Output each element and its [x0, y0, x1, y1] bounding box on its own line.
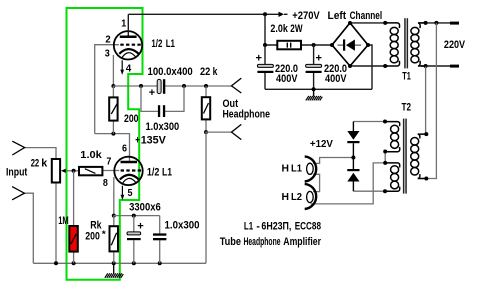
green highlight outline around SRPP stage — [67, 8, 143, 280]
transformer T1 primary winding — [385, 23, 399, 66]
svg-text:+: + — [135, 135, 140, 147]
heater HL1 — [305, 156, 316, 181]
terminal 220V top — [450, 22, 459, 25]
node T1 secondary bottom — [424, 64, 428, 68]
svg-text:-: - — [256, 220, 260, 232]
capacitor 3300x6 cathode bypass — [127, 232, 141, 240]
node top cathode junction — [111, 84, 115, 88]
node T2 secondary top — [424, 132, 428, 136]
wire lower cathode pin 8 lead — [113, 177, 115, 216]
capacitor 1.0x300 bypass top — [158, 105, 165, 117]
tube V1 grid — [120, 44, 141, 46]
svg-text:*: * — [102, 229, 107, 239]
resistor 22k load — [202, 97, 210, 119]
wire cathode bypass rail — [114, 215, 160, 217]
tube V1 heater pin 4 arrow — [120, 60, 124, 75]
svg-text:8: 8 — [103, 178, 108, 189]
svg-text:Headphone: Headphone — [244, 236, 281, 248]
svg-text:Left: Left — [328, 10, 347, 22]
wire T2 secondary top riser — [422, 66, 426, 134]
wire 22k load leads — [205, 86, 207, 132]
svg-text:2.0k: 2.0k — [270, 23, 288, 35]
svg-text:400V: 400V — [325, 73, 347, 85]
wire T1 secondary top to 220V terminal — [421, 22, 450, 24]
svg-text:T2: T2 — [402, 102, 412, 114]
svg-text:+270V: +270V — [292, 10, 320, 22]
transformer T2 secondary winding — [411, 134, 427, 178]
capacitor 1.0x300 cathode film — [153, 233, 166, 240]
node PSU ground junction — [312, 87, 316, 91]
tube V2 grid — [121, 169, 142, 171]
node 220V top tap — [434, 21, 438, 25]
heater HL2 — [305, 184, 316, 209]
svg-text:6Н23П,: 6Н23П, — [261, 220, 291, 232]
wire Rk leads — [113, 216, 115, 264]
wire film cap branch left — [141, 86, 158, 111]
svg-text:1M: 1M — [58, 215, 68, 227]
node T1 primary top — [383, 21, 387, 25]
svg-text:1/2: 1/2 — [147, 166, 160, 178]
wire 1M bottom lead — [73, 252, 75, 264]
svg-text:ECC88: ECC88 — [295, 220, 321, 232]
node film cap ground junction — [158, 261, 162, 265]
wire +270V rail — [128, 13, 278, 15]
wire lower plate node — [95, 134, 130, 162]
svg-text:k: k — [41, 158, 48, 170]
tube V1 cathode — [119, 49, 138, 57]
svg-text:H: H — [282, 192, 290, 203]
node +12V junction — [351, 156, 355, 160]
svg-text:100.0x400: 100.0x400 — [148, 66, 193, 78]
svg-text:+: + — [149, 87, 155, 99]
connector input sleeve prong — [12, 187, 24, 200]
wire input jack sleeve to ground rail — [24, 193, 33, 263]
connector headphone tip prong — [232, 78, 242, 93]
diode D1 — [347, 122, 359, 158]
wire +12V node to heaters — [313, 158, 353, 164]
ground amp — [105, 263, 124, 278]
svg-text:Input: Input — [6, 167, 28, 179]
tube V2 heater pin 5 arrow — [121, 186, 125, 200]
svg-text:1/2: 1/2 — [151, 38, 162, 50]
transformer T2 primary winding 2 — [385, 163, 400, 191]
diode D2 — [347, 158, 359, 192]
svg-text:22: 22 — [31, 158, 40, 170]
node T2 primary top end — [383, 120, 387, 124]
wire 1.0x300 film cap leads — [159, 216, 161, 264]
wire top cathode pin 3 lead — [112, 55, 114, 86]
resistor 200 SRPP — [109, 97, 117, 120]
svg-text:+: + — [137, 221, 144, 233]
node 1M ground junction — [72, 261, 76, 265]
node T1 primary bottom — [383, 64, 387, 68]
connector input tip prong — [12, 141, 24, 155]
node T2 center tap — [383, 161, 387, 165]
svg-text:H: H — [282, 164, 290, 175]
wire T2 secondary bottom riser — [422, 23, 436, 179]
tube V1 plate — [120, 14, 137, 36]
bridge rectifier diamond — [330, 21, 370, 68]
wire output node rail — [113, 85, 231, 87]
svg-text:+: + — [316, 53, 323, 65]
transformer T2 core — [403, 119, 407, 194]
wire T2 center tap link — [311, 152, 386, 204]
node film cap left branch — [139, 84, 143, 88]
connector headphone sleeve prong — [232, 124, 242, 139]
svg-text:5: 5 — [128, 188, 133, 199]
svg-text:+: + — [256, 53, 263, 65]
node 3300 cap ground junction — [132, 261, 136, 265]
wire T2 primary top end to D1 — [353, 121, 385, 123]
node wiper 1M junction — [72, 169, 76, 173]
tube V1 upper triode envelope — [114, 31, 142, 59]
wire HL1 to HL2 link — [313, 174, 320, 191]
capacitor C2 220.0 400V — [306, 64, 322, 73]
node 3300 cap top — [132, 214, 136, 218]
terminal 220V bottom — [450, 65, 459, 68]
bridge diode symbol — [338, 39, 362, 50]
tube V2 lower triode envelope — [114, 157, 142, 185]
svg-text:Channel: Channel — [350, 10, 383, 22]
arrow to +270V — [279, 12, 288, 17]
wire headphone return — [206, 132, 232, 263]
wire input jack tip to volume pot — [25, 148, 56, 159]
wire amp ground rail — [33, 262, 206, 264]
tube V2 plate — [121, 161, 138, 164]
resistor 2.0k 2W — [277, 41, 301, 50]
tube V2 cathode — [120, 175, 139, 183]
node 22k load bottom — [204, 130, 208, 134]
wire film cap branch right — [165, 86, 184, 111]
node lower cathode junction — [112, 214, 116, 218]
wire rail to 2.0k — [265, 14, 332, 45]
svg-text:Headphone: Headphone — [223, 108, 271, 120]
node T1 secondary top — [424, 21, 428, 25]
node +270V junction — [263, 12, 267, 16]
wire PSU ground rail — [265, 45, 372, 89]
svg-text:200: 200 — [124, 113, 139, 125]
node 200 ohm bottom junction — [111, 132, 115, 136]
wire 3300 cap leads — [133, 216, 135, 264]
svg-text:3: 3 — [105, 49, 110, 60]
svg-text:2W: 2W — [290, 23, 303, 35]
svg-text:1.0x300: 1.0x300 — [165, 219, 200, 231]
svg-text:135V: 135V — [141, 135, 167, 147]
node T2 primary bottom end — [383, 189, 387, 193]
wire 200 ohm leads — [112, 86, 114, 134]
wire bridge to T1 AC top — [350, 22, 388, 24]
svg-text:k: k — [213, 66, 218, 78]
svg-text:3300x6: 3300x6 — [129, 201, 161, 213]
resistor Rk 200* — [110, 226, 119, 251]
wire 1M top lead — [73, 171, 75, 226]
wire volume pot bottom to ground rail — [55, 183, 57, 264]
svg-text:6: 6 — [122, 144, 127, 155]
transformer T1 core — [404, 18, 408, 68]
resistor 1M grid leak (red) — [69, 226, 78, 252]
node pot ground junction — [54, 261, 58, 265]
node Rk ground junction — [112, 261, 116, 265]
svg-text:Tube: Tube — [220, 236, 241, 248]
svg-text:L1: L1 — [244, 220, 253, 232]
svg-text:220V: 220V — [444, 39, 466, 51]
transformer T1 secondary winding — [411, 23, 426, 66]
wire capacitor C1 leads — [264, 45, 266, 89]
svg-text:1: 1 — [121, 19, 126, 30]
wire top grid pin 2 to lower plate node — [95, 45, 119, 134]
node T2 winding1 bottom — [383, 150, 387, 154]
node 2.0k right junction — [312, 43, 316, 47]
node 2.0k left junction — [263, 43, 267, 47]
potentiometer 22k volume — [52, 159, 66, 183]
transformer T2 primary winding 1 — [385, 122, 400, 152]
svg-text:+12V: +12V — [310, 139, 333, 150]
svg-text:L1: L1 — [162, 166, 172, 178]
svg-text:2: 2 — [105, 34, 111, 45]
svg-text:1.0x300: 1.0x300 — [146, 121, 180, 133]
svg-text:4: 4 — [126, 64, 132, 75]
resistor 1.0k grid stopper — [79, 167, 102, 175]
node 22k load top — [204, 84, 208, 88]
capacitor 100.0x400 coupling — [157, 79, 165, 94]
wire T2 primary bottom end to D2 — [353, 190, 385, 192]
wire T1 secondary bottom to 220V terminal — [421, 65, 450, 67]
svg-text:200: 200 — [85, 230, 100, 242]
wire 1.0k to grid pin 7 — [102, 170, 119, 172]
svg-text:1.0k: 1.0k — [80, 150, 102, 161]
wire capacitor C2 leads — [313, 45, 315, 89]
node T2 secondary bottom — [424, 177, 428, 181]
svg-text:L1: L1 — [291, 164, 302, 175]
svg-text:400V: 400V — [276, 73, 298, 85]
svg-text:22: 22 — [200, 66, 210, 78]
node coupling cap right — [182, 84, 186, 88]
svg-text:7: 7 — [106, 156, 111, 167]
wire bridge to T1 AC bottom — [350, 65, 388, 67]
ground PSU — [306, 89, 323, 100]
capacitor C1 220.0 400V — [257, 64, 273, 73]
svg-text:Amplifier: Amplifier — [283, 236, 321, 248]
svg-text:L1: L1 — [166, 38, 175, 50]
wire pot wiper to 1.0k — [65, 170, 79, 172]
svg-text:T1: T1 — [402, 71, 411, 83]
svg-text:L2: L2 — [291, 192, 302, 203]
